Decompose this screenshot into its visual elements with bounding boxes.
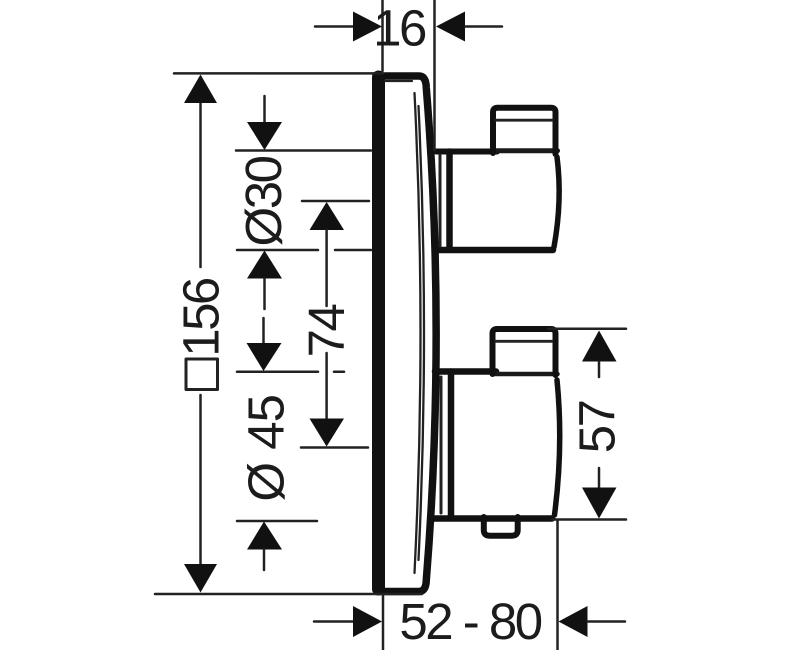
- svg-text:52 - 80: 52 - 80: [399, 593, 541, 650]
- svg-text:Ø 45: Ø 45: [238, 395, 295, 502]
- upper handle sleeve lip left edge: [439, 155, 442, 246]
- dim O45 lower tail line: [263, 550, 266, 571]
- dim 16 right tail line: [465, 25, 502, 28]
- dim 52-80 left extension line: [382, 596, 385, 650]
- svg-text:Ø30: Ø30: [235, 156, 292, 246]
- lower handle stem left edge: [448, 372, 455, 519]
- upper handle stem right edge: [554, 157, 559, 247]
- dim 74 top extension line (upper handle axis): [302, 200, 369, 203]
- dim O30 lower arrowhead: [247, 251, 282, 279]
- escutcheon plate back edge: [372, 77, 385, 589]
- extension line right of dim 16 (plate front plane): [433, 0, 436, 150]
- dim 156 top extension line: [174, 72, 383, 75]
- dim 52-80 left arrowhead: [353, 606, 382, 637]
- dim 74 bottom extension line (lower handle axis): [301, 446, 368, 449]
- svg-text:57: 57: [569, 401, 626, 453]
- dim 74 lower tail line: [325, 353, 328, 418]
- lower handle safety stop tab: [484, 517, 518, 536]
- dim O45 upper arrowhead: [247, 343, 282, 371]
- dim 57 upper arrowhead: [582, 331, 617, 362]
- dim 57 upper tail line: [598, 362, 601, 378]
- svg-text:74: 74: [298, 305, 355, 358]
- upper handle stem top edge: [436, 149, 497, 155]
- dim O30 lower tail line: [263, 279, 266, 310]
- dim O45 upper tail line: [262, 318, 265, 344]
- dim O30 upper tail line: [263, 96, 266, 123]
- upper handle under-knob line: [496, 148, 558, 153]
- dim 74 upper arrowhead: [310, 202, 345, 230]
- dim 156 vertical dimension line lower part: [199, 395, 202, 567]
- dim O45 top extension line: [237, 371, 318, 374]
- escutcheon plate outline (top edge, front arc, bottom edge): [377, 76, 436, 592]
- dim 16 left tail line: [315, 25, 353, 28]
- dim 156 bottom extension line: [155, 593, 422, 596]
- dim 52-80 right tail line: [588, 620, 626, 623]
- dim 156 top arrowhead: [184, 75, 217, 104]
- dim 74 upper tail line: [325, 230, 328, 306]
- dim 52-80 left tail line: [314, 620, 353, 623]
- dim 57 lower arrowhead: [582, 488, 617, 519]
- lower handle knob inner line: [496, 340, 553, 343]
- dim O30 top extension line: [236, 149, 371, 152]
- dim O30 bottom extension line segment 2: [335, 249, 371, 252]
- dim 52-80 right extension line: [556, 521, 559, 650]
- plate front inner contour line B: [419, 106, 425, 560]
- extension line left of dim 16 (wall plane, above plate): [381, 0, 384, 71]
- dim O45 lower arrowhead: [247, 522, 282, 550]
- dim O45 bottom extension line: [237, 520, 317, 523]
- lower handle under-knob line: [495, 372, 558, 377]
- square symbol of label 156: [186, 359, 218, 390]
- upper handle knob inner line: [496, 119, 553, 122]
- dim 57 lower tail line: [598, 468, 601, 488]
- dim 74 lower arrowhead: [310, 419, 345, 447]
- upper handle stem left edge: [446, 152, 453, 250]
- plate top seam line: [385, 80, 412, 82]
- lower handle knob: [493, 329, 556, 375]
- dim 156 vertical dimension line upper part: [199, 100, 202, 267]
- lower handle stem right edge: [555, 380, 560, 515]
- dim O45 top extension line dash: [334, 371, 344, 374]
- svg-text:156: 156: [173, 278, 230, 357]
- plate front inner contour line A: [415, 93, 421, 573]
- lower handle sleeve lip left edge: [440, 377, 443, 513]
- upper handle stem bottom edge: [436, 247, 553, 254]
- dim 16 left arrowhead: [353, 12, 382, 42]
- dim 16 right arrowhead: [436, 12, 465, 42]
- lower handle stem top edge: [435, 368, 496, 375]
- dim 52-80 right arrowhead: [559, 606, 588, 637]
- dim 156 bottom arrowhead: [184, 564, 217, 593]
- dim O30 bottom extension line segment 1: [237, 249, 318, 252]
- upper handle knob: [493, 108, 556, 154]
- dim 57 top extension line: [548, 328, 626, 331]
- dim 57 bottom extension line: [552, 518, 626, 521]
- svg-text:16: 16: [373, 0, 426, 57]
- dim O30 upper arrowhead: [247, 122, 282, 150]
- lower handle stem bottom edge: [434, 515, 552, 522]
